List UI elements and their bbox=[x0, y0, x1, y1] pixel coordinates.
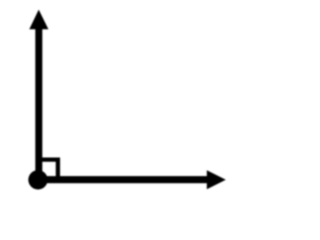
wire: horizontal ray shaft bbox=[38, 176, 208, 183]
wire: vertical ray shaft bbox=[35, 24, 42, 180]
right-angle square marker bbox=[37, 160, 58, 180]
node: vertex dot bbox=[28, 170, 47, 189]
arrowhead: vertical ray (up) bbox=[29, 10, 48, 30]
arrowhead: horizontal ray (right) bbox=[207, 170, 226, 189]
